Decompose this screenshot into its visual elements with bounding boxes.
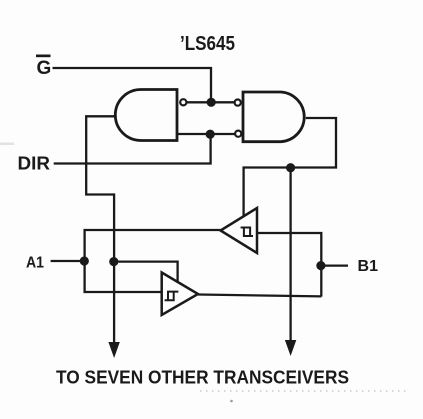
svg-text:’LS645: ’LS645 — [180, 33, 235, 55]
AND gate G1 (left, faces left) — [115, 90, 177, 141]
arrowhead: left bus arrow — [108, 342, 119, 358]
wire: A1 node down to lower buffer input — [85, 261, 162, 292]
svg-text:A1: A1 — [26, 255, 44, 272]
svg-text:TO SEVEN OTHER TRANSCEIVERS: TO SEVEN OTHER TRANSCEIVERS — [56, 368, 349, 388]
node: enable junction (left) — [109, 257, 118, 266]
bubble: right gate bottom input — [235, 131, 241, 137]
wire: left enable to lower buffer — [114, 262, 178, 282]
svg-text:DIR: DIR — [18, 153, 51, 174]
wire: upper buffer output to A1 node — [85, 230, 221, 261]
wire: right gate output across to upper buffer enable — [244, 118, 336, 217]
node: enable junction (right) — [286, 163, 295, 172]
buffer U2 (upper, points left) — [221, 208, 258, 253]
wire: B1 lead — [321, 264, 348, 266]
AND gate G2 (right, faces right) — [243, 92, 304, 142]
wire: enable down to right arrow — [289, 168, 291, 344]
label G-bar — [36, 55, 51, 80]
wire: A1 lead — [51, 260, 85, 262]
bubble: left gate top input — [180, 99, 186, 105]
scan artifact: dotted rule — [200, 390, 408, 392]
scan artifact: smudge left — [0, 143, 14, 146]
node: DIR junction (bottom) — [206, 130, 215, 139]
wire: lower buffer output to B1 node — [198, 295, 321, 297]
hysteresis symbol U2 — [241, 228, 253, 237]
wire: bottom row between gates — [177, 133, 235, 135]
svg-text:B1: B1 — [358, 258, 379, 275]
buffer U1 (lower, points right) — [162, 273, 198, 316]
wire: G-bar to top junction — [53, 68, 212, 102]
node: G-bar junction (top) — [207, 98, 216, 107]
node B1 junction — [316, 261, 325, 270]
wire: upper buffer input from B1 node — [257, 233, 321, 297]
svg-text:G: G — [37, 58, 52, 79]
hysteresis symbol U1 — [165, 292, 179, 301]
scan artifact: speck — [230, 400, 233, 403]
node A1 junction — [80, 256, 89, 265]
wire: DIR to bottom junction — [54, 134, 211, 163]
bubble: right gate top input — [235, 100, 241, 106]
wire: left gate output down to left arrow — [86, 116, 115, 345]
arrowhead: right bus arrow — [285, 340, 296, 356]
wire: top row between gates — [187, 101, 235, 103]
